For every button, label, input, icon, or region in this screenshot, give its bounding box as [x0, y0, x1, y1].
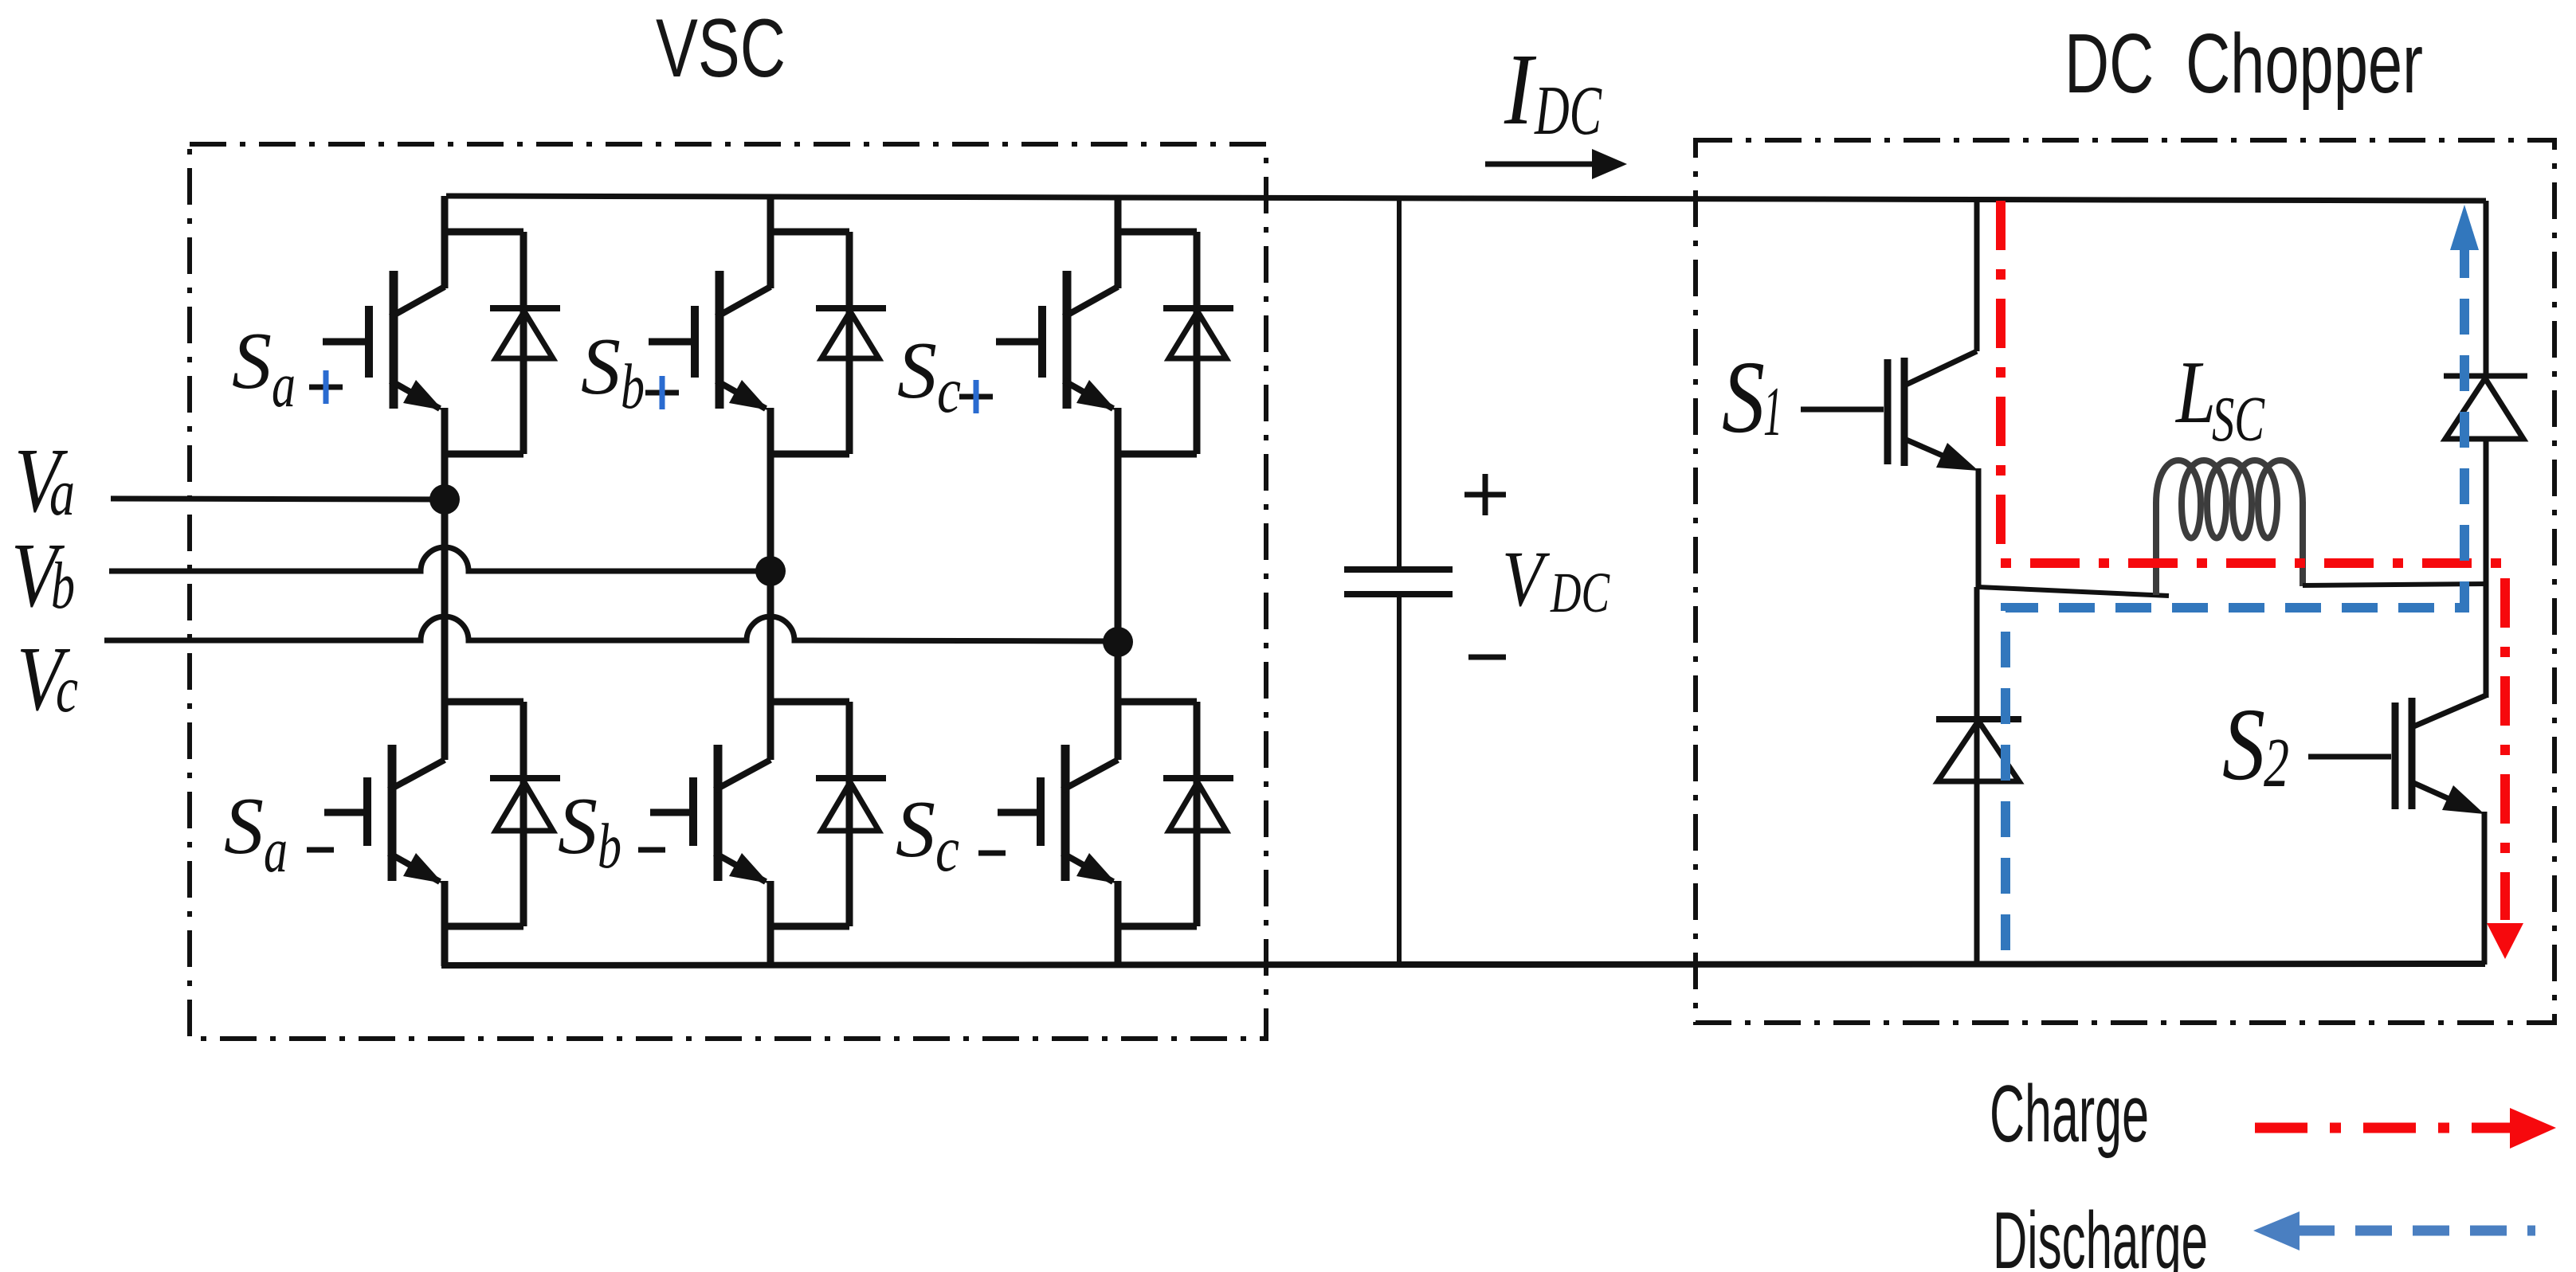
svg-text:b: b — [598, 812, 621, 882]
IGBT Sa+ body — [390, 271, 445, 410]
switch Sb- (lower IGBT leg at x=967) — [650, 571, 886, 966]
IGBT Sa- body — [389, 745, 445, 883]
svg-text:SC: SC — [2212, 385, 2265, 455]
svg-text:S: S — [224, 781, 264, 871]
inductor LSC — [2156, 460, 2303, 595]
svg-text:a: a — [264, 816, 288, 886]
diode DSb- (antiparallel) — [816, 702, 886, 926]
diode D4 (lower left) — [1936, 587, 2021, 965]
IGBT Sa- gate lead — [324, 777, 367, 846]
label LSC — [2174, 343, 2265, 455]
svg-text:S: S — [1722, 340, 1765, 455]
IGBT Sc+ collector wire — [1115, 196, 1197, 288]
IGBT Sc- gate lead — [998, 777, 1041, 846]
label Vc — [17, 628, 78, 730]
svg-text:I: I — [1504, 33, 1536, 146]
plus sign of VDC — [1464, 474, 1506, 515]
svg-text:2: 2 — [2264, 725, 2289, 802]
wire Va — [111, 499, 445, 499]
diode DSc+ (antiparallel) — [1163, 232, 1233, 454]
IGBT Sa- collector wire — [441, 499, 523, 760]
IGBT Sc+ body — [1064, 271, 1118, 410]
svg-text:S: S — [2222, 687, 2265, 802]
svg-text:S: S — [581, 322, 621, 412]
IGBT Sa- emitter wire — [441, 881, 523, 966]
label IDC — [1504, 33, 1602, 150]
diode DSa+ (antiparallel) — [490, 232, 560, 454]
wire inductor to diode junction — [2303, 584, 2488, 585]
discharge path arrowhead — [2450, 205, 2479, 250]
discharge path (blue dashed) — [2006, 249, 2464, 950]
svg-text:Discharge: Discharge — [1993, 1196, 2208, 1272]
label Sa+ — [232, 316, 343, 421]
svg-text:1: 1 — [1763, 374, 1782, 451]
IGBT Sc+ emitter wire — [1115, 408, 1197, 642]
arrow IDC — [1485, 149, 1627, 179]
svg-text:S: S — [896, 785, 935, 875]
IGBT Sa+ collector wire — [441, 196, 523, 288]
switch Sb+ (upper IGBT leg at x=967) — [649, 196, 886, 571]
svg-text:DC: DC — [1534, 72, 1602, 150]
DC Chopper dash-dot box — [1696, 140, 2554, 1023]
switch Sc+ (upper IGBT leg at x=1403) — [996, 196, 1233, 642]
switch Sa- (lower IGBT leg at x=558) — [324, 499, 560, 966]
IGBT Sb- emitter wire — [767, 881, 849, 966]
diode DSb+ (antiparallel) — [816, 232, 886, 454]
svg-text:Charge: Charge — [1990, 1070, 2149, 1159]
svg-text:c: c — [935, 815, 959, 885]
charge path (red dash-dot) — [2001, 201, 2505, 920]
IGBT Sb+ gate lead — [649, 306, 695, 378]
wire S1 emitter to inductor — [1978, 587, 2169, 596]
svg-text:c: c — [937, 356, 961, 426]
charge path arrowhead — [2487, 923, 2523, 959]
IGBT Sb- gate lead — [650, 777, 693, 846]
wire: top DC bus — [446, 196, 2486, 201]
wire Vb with hop over phase-A leg — [109, 547, 770, 571]
svg-text:S: S — [558, 781, 598, 871]
diode DSa- (antiparallel) — [490, 702, 560, 926]
label S1 — [1722, 340, 1782, 455]
label Sc+ — [897, 326, 993, 426]
svg-text:c: c — [56, 652, 78, 726]
label Sb+ — [581, 322, 679, 422]
minus sign of VDC — [1468, 655, 1506, 660]
switch Sa+ (upper IGBT leg at x=558) — [323, 196, 560, 499]
node B — [755, 556, 786, 586]
switch Sc- (lower IGBT leg at x=1403) — [998, 642, 1233, 966]
IGBT Sb- body — [715, 745, 770, 883]
svg-text:VSC: VSC — [656, 2, 786, 95]
IGBT Sa+ emitter wire — [441, 408, 523, 499]
IGBT Sb+ emitter wire — [767, 408, 849, 571]
svg-text:S: S — [897, 326, 937, 416]
IGBT Sb+ collector wire — [767, 196, 849, 288]
svg-text:S: S — [232, 316, 272, 406]
node C — [1103, 627, 1133, 657]
label Va — [14, 430, 75, 532]
label Sc- — [896, 785, 1006, 885]
IGBT Sb+ body — [716, 271, 770, 410]
label Sb- — [558, 781, 665, 882]
svg-text:a: a — [272, 350, 296, 421]
wire: bottom DC bus — [441, 964, 2485, 965]
switch S1 (IGBT) — [1801, 199, 1978, 589]
IGBT Sc- collector wire — [1115, 642, 1197, 760]
label VDC — [1502, 534, 1610, 624]
switch S2 (IGBT) — [2308, 584, 2486, 965]
svg-text:DC: DC — [1550, 561, 1610, 624]
label Vb — [11, 525, 75, 627]
VSC dash-dot box — [190, 144, 1266, 1039]
legend discharge arrow (blue dashed) — [2253, 1211, 2535, 1250]
diode DSc- (antiparallel) — [1163, 702, 1233, 926]
svg-text:a: a — [49, 456, 75, 530]
legend charge arrow (red dash-dot) — [2255, 1108, 2556, 1149]
svg-text:b: b — [621, 352, 645, 422]
IGBT Sc+ gate lead — [996, 306, 1042, 378]
node A — [429, 484, 460, 515]
svg-text:V: V — [1502, 534, 1550, 623]
svg-text:L: L — [2174, 343, 2216, 442]
IGBT Sa+ gate lead — [323, 306, 369, 378]
label Sa- — [224, 781, 334, 886]
IGBT Sc- body — [1062, 745, 1118, 883]
svg-text:DC Chopper: DC Chopper — [2064, 17, 2423, 111]
capacitor C_DC — [1344, 198, 1453, 965]
wire Vc with hops over phase-A and phase-B legs — [104, 616, 1118, 641]
svg-text:b: b — [51, 549, 75, 623]
diode D3 (upper right) — [2444, 201, 2527, 584]
label S2 — [2222, 687, 2289, 802]
IGBT Sb- collector wire — [767, 571, 849, 760]
IGBT Sc- emitter wire — [1115, 881, 1197, 966]
